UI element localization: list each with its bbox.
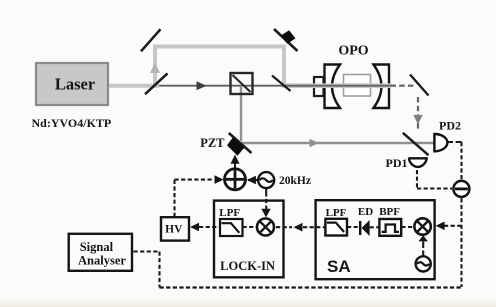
svg-text:Signal: Signal [80,240,114,254]
svg-text:LPF: LPF [326,207,347,219]
svg-text:BPF: BPF [379,206,400,218]
svg-text:PZT: PZT [200,136,225,150]
svg-text:Nd:YVO4/KTP: Nd:YVO4/KTP [32,116,112,130]
svg-text:20kHz: 20kHz [279,175,311,187]
svg-text:PD1: PD1 [386,156,408,170]
svg-text:ED: ED [358,206,373,218]
svg-text:OPO: OPO [338,44,368,59]
svg-text:LOCK-IN: LOCK-IN [220,259,275,273]
svg-text:SA: SA [327,257,351,276]
svg-text:Analyser: Analyser [78,253,126,267]
svg-text:HV: HV [165,223,183,235]
svg-text:Laser: Laser [55,75,95,94]
svg-text:LPF: LPF [219,207,240,219]
svg-text:PD2: PD2 [439,119,461,133]
